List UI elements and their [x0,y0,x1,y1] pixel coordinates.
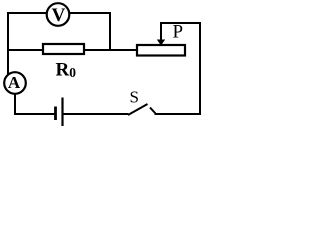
svg-text:P: P [173,22,184,43]
wire vertical drop to node between R0 and P [109,12,111,51]
wire between R0 and potentiometer [84,49,137,51]
battery cell short plate (-) [54,107,57,121]
resistor R0 [43,44,84,54]
wire top-right corner horizontal [160,22,201,24]
wire bottom-right horizontal [155,113,202,115]
wire right vertical [199,22,201,115]
wire bottom-left horizontal [14,113,55,115]
wire left vertical [7,12,9,75]
wire bottom-left vertical [14,93,16,115]
potentiometer wiper arrow [157,23,165,46]
voltmeter U1 (V) [47,3,70,26]
ammeter A [4,72,26,94]
svg-text:V: V [52,5,66,26]
switch S blade [128,104,148,115]
potentiometer P body [137,45,185,56]
wire middle-left horizontal [7,49,43,51]
wire battery to switch [62,113,129,115]
svg-text:S: S [130,88,139,107]
wire top-left horizontal [7,12,47,14]
switch S contact stub [150,108,156,114]
battery cell long plate (+) [61,98,63,127]
svg-text:A: A [8,73,21,92]
wire top-right horizontal [69,12,111,14]
